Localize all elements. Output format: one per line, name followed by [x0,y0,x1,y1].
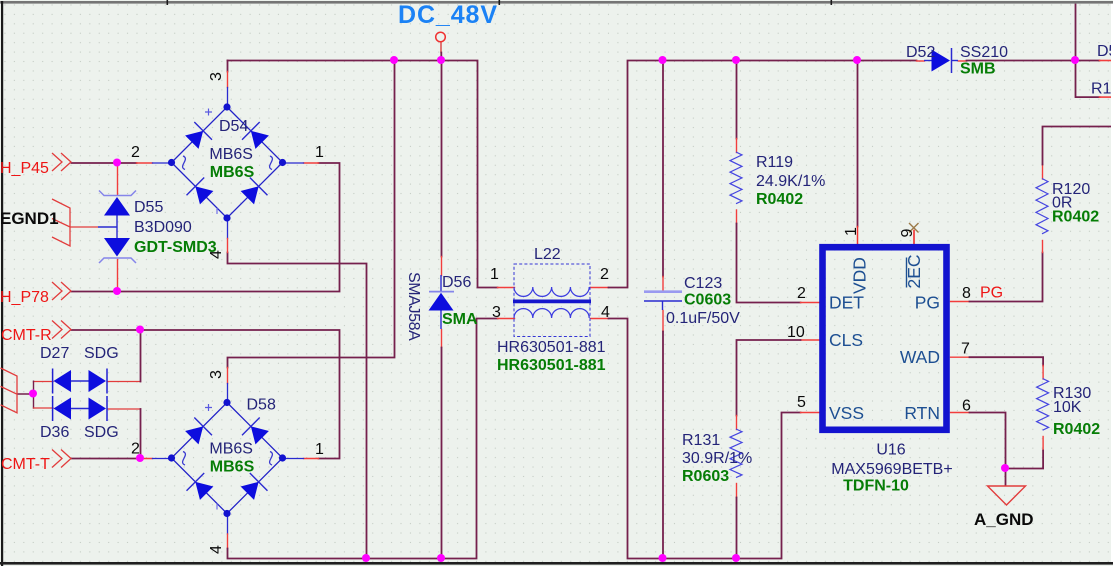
wire top bus left (DC_48V net) [228,61,498,288]
svg-text:3: 3 [208,370,225,379]
svg-text:H_P45: H_P45 [0,160,49,177]
svg-text:SMA: SMA [442,311,478,328]
svg-text:3: 3 [208,72,225,81]
wire right edge branch down [1076,61,1100,98]
svg-text:VSS: VSS [829,403,864,423]
wire R119 to U16 DET [737,224,801,303]
svg-text:MB6S: MB6S [209,441,253,458]
common mode choke L22 [513,264,591,337]
junction node bottom bus x736 [732,554,740,562]
svg-text:SDG: SDG [84,424,119,441]
pin stub U16 VSS [801,412,820,414]
svg-text:D52: D52 [906,44,935,61]
pin stub L22 pin2 [591,287,609,289]
port chevron H_P45 [52,153,71,171]
pin stub C123 top [662,277,664,292]
wire L22 pin4 drop to bottom bus right [609,319,801,559]
svg-text:L22: L22 [534,246,561,263]
EGND1 port symbol [52,199,98,246]
svg-text:H_P78: H_P78 [0,289,49,306]
wire D27 to CMT-R [140,330,142,382]
wire C123 branch upper [662,61,664,277]
pin stub L22 pin1 [498,287,515,289]
pin stub R131 bottom [736,484,738,498]
pin stub R131 top [736,416,738,430]
wire CMT-R to D58 pin1 [72,330,340,459]
pin stub R130 bottom [1042,437,1044,451]
ground symbol A_GND [988,486,1026,505]
sheet top border [0,1,1113,4]
resistor R130 [1037,379,1049,431]
wire H_P45 to D54 pin2 [72,162,137,164]
svg-text:2: 2 [131,441,140,458]
junction node connector/D27/D36 [29,390,37,398]
svg-text:D56: D56 [442,274,471,291]
svg-text:R119: R119 [756,154,793,171]
svg-text:2: 2 [131,144,140,161]
svg-text:WAD: WAD [900,347,940,367]
svg-text:30.9R/1%: 30.9R/1% [682,450,752,467]
svg-text:EGND1: EGND1 [0,209,59,228]
wire L22 pin2 riser to top bus right [609,61,917,288]
junction node bottom bus x366 [362,554,370,562]
svg-text:SS210: SS210 [960,44,1008,61]
svg-text:HR630501-881: HR630501-881 [497,339,606,356]
wire D54 pin4 elbow to bottom bus [228,253,367,559]
wire D55 junction drop from H_P45 [117,163,119,164]
svg-text:R1: R1 [1091,81,1112,98]
svg-text:MB6S: MB6S [209,146,253,163]
pin stub C123 bottom [662,311,664,332]
pin stub L22 pin3 [498,318,515,320]
TVS pair D27 [53,369,107,394]
wire D36 to CMT-T [140,409,142,459]
pin stub R120 top [1042,165,1044,180]
svg-text:SMB: SMB [960,61,996,78]
svg-text:MAX5969BETB+: MAX5969BETB+ [831,461,952,478]
junction node CMT-R/D27 [136,326,144,334]
svg-text:D27: D27 [40,345,69,362]
wire right edge branch up [1075,5,1077,61]
svg-text:DC_48V: DC_48V [398,1,498,29]
svg-text:C0603: C0603 [684,292,731,309]
pin stub L22 pin4 [591,318,609,320]
pin stub D55 top [117,163,119,195]
junction node top bus x1075 [1071,56,1079,64]
svg-text:B3D090: B3D090 [134,219,192,236]
svg-text:10K: 10K [1053,399,1082,416]
diode D52 [924,48,958,73]
junction node bottom bus x662 [659,554,667,562]
wire R131 to bottom bus [736,498,738,559]
svg-text:3: 3 [492,304,501,321]
svg-text:SDG: SDG [84,345,119,362]
capacitor C123 [644,292,682,310]
svg-text:GDT-SMD3: GDT-SMD3 [134,239,217,256]
junction node top bus x662 [659,56,667,64]
pin stub D54 pin2 [137,162,153,164]
svg-text:1: 1 [490,266,499,283]
IC body U16 [823,247,947,430]
svg-text:R0402: R0402 [1052,209,1099,226]
wire D54 pin3 riser [227,61,229,72]
svg-text:4: 4 [601,304,610,321]
svg-text:2: 2 [600,266,609,283]
sheet bottom border [0,562,1113,565]
pin stub D36 right [108,408,141,410]
svg-text:D36: D36 [40,424,69,441]
svg-text:7: 7 [961,341,970,358]
resistor R119 [730,152,742,204]
svg-text:4: 4 [208,545,225,554]
TVS pair D36 [53,396,107,421]
svg-text:U16: U16 [876,442,905,459]
svg-text:PG: PG [980,285,1003,302]
GDT D55 [98,191,136,264]
junction node top bus x394 [390,56,398,64]
pin stub R130 top [1042,366,1044,380]
offpage connector left [1,368,18,413]
pin stub D58 pin1 [304,458,319,460]
pin stub D52 cathode [959,60,967,62]
pin stub U16 RTN [951,412,970,414]
resistor R131 [730,429,742,478]
bridge rectifier D54 [168,103,286,221]
junction node CMT-T/D36 [136,454,144,462]
wire U16 RTN to ground [970,413,1006,486]
svg-text:1: 1 [315,441,324,458]
port chevron CMT-T [52,450,71,468]
svg-text:TDFN-10: TDFN-10 [843,478,909,495]
bridge rectifier D58 [168,399,286,517]
svg-text:RTN: RTN [904,403,940,423]
svg-text:HR630501-881: HR630501-881 [497,357,606,374]
pin stub D54 pin4 [227,219,229,239]
svg-text:R0402: R0402 [1053,421,1100,438]
svg-text:VDD: VDD [850,257,870,294]
wire CMT-T to D58 pin2 [72,458,137,460]
junction node RTN/A_GND [1001,464,1009,472]
pin stub U16 PG [951,301,970,303]
wire C123 branch lower [662,332,664,559]
svg-text:0.1uF/50V: 0.1uF/50V [666,310,740,327]
pin stub U16 2EC pin9 [913,231,915,245]
pin stub R120 bottom [1042,241,1044,253]
svg-text:5: 5 [797,394,806,411]
junction node top bus x736 [732,56,740,64]
sheet left border [1,1,3,566]
svg-text:CLS: CLS [829,330,863,350]
svg-text:8: 8 [962,285,971,302]
svg-text:CMT-R: CMT-R [1,327,52,344]
junction node bottom bus x441 [437,554,445,562]
pin stub U16 WAD [951,356,970,358]
svg-text:DET: DET [829,293,864,313]
svg-text:MB6S: MB6S [210,164,255,181]
wire U16 VDD branch from top bus [857,61,859,227]
pin stub R119 bottom [736,210,738,224]
wire U16 CLS to R131 [737,340,801,416]
junction node top bus x441 [437,56,445,64]
wire D56 branch upper [441,61,443,257]
wire bottom bus left [228,319,498,559]
pin stub D56 bottom [441,330,443,348]
wire DC_48V port drop [440,43,442,53]
no-connect X on pin 9 [909,223,919,233]
svg-text:D58: D58 [247,397,276,414]
svg-text:A_GND: A_GND [974,510,1034,529]
junction node top bus x857 [853,56,861,64]
svg-text:CMT-T: CMT-T [1,456,50,473]
svg-text:D5: D5 [1097,43,1113,60]
pin stub D27 right [108,381,141,383]
wire U16 PG to R120 [970,253,1043,302]
pin stub U16 CLS [801,339,820,341]
svg-text:24.9K/1%: 24.9K/1% [756,173,825,190]
pin stub D58 pin2 [137,458,153,460]
svg-text:D54: D54 [219,118,248,135]
wire connector to D36 row [33,381,35,408]
wire connector to D27/D36 [18,393,34,395]
junction node H_P45/D55 [113,159,121,167]
svg-text:PG: PG [915,293,940,313]
pin stub D58 pin3 [227,368,229,384]
pin stub D55 bottom [117,260,119,292]
power port DC_48V circle [436,32,446,42]
svg-text:10: 10 [787,324,805,341]
svg-text:MB6S: MB6S [210,459,255,476]
svg-text:9: 9 [899,229,916,238]
port chevron CMT-R [52,321,71,339]
wire R119 branch from top bus [736,61,738,139]
svg-text:C123: C123 [684,275,722,292]
wire D58 pin3 riser and cross link to top bus [228,61,395,368]
overline of 2EC [906,258,908,288]
pin stub D54 pin3 [227,72,229,88]
svg-text:R0402: R0402 [756,191,803,208]
wire D52 cathode bus to right edge [967,60,1100,62]
pin stub U16 DET [801,302,820,304]
right margin strip [1111,4,1113,562]
pin stub U16 VDD pin1 [857,227,859,245]
svg-text:D55: D55 [134,199,163,216]
svg-text:R0603: R0603 [682,468,729,485]
sheet zone tick [831,0,833,5]
wire D56 branch lower [441,348,443,559]
port chevron H_P78 [52,282,71,300]
wire R130 to A_GND node [1006,451,1044,469]
wire U16 WAD to R130 [970,357,1044,365]
svg-text:2: 2 [797,285,806,302]
pin stub D58 pin4 [227,514,229,534]
wire R120 to right edge [1043,127,1113,165]
TVS diode D56 [429,275,455,329]
svg-text:6: 6 [962,398,971,415]
pin stub D54 pin1 [304,162,319,164]
svg-text:R131: R131 [682,432,720,449]
junction node H_P78/D55 [113,287,121,295]
wire H_P78 to D54 pin1 [72,163,340,292]
svg-text:1: 1 [315,144,324,161]
svg-text:SMAJ58A: SMAJ58A [405,272,422,341]
resistor R120 [1036,179,1048,234]
pin stub D52 anode [917,60,925,62]
pin stub R119 top [736,139,738,153]
pin stub D56 top [441,257,443,276]
svg-text:1: 1 [843,227,860,236]
